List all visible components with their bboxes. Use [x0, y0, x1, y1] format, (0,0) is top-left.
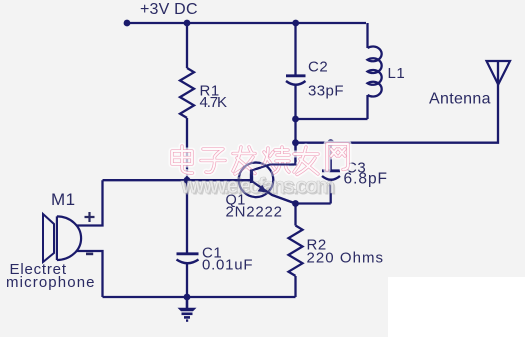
wire collector column [294, 119, 296, 165]
wire tank bottom row [296, 118, 368, 120]
node junction base/R1/C1 [184, 177, 191, 184]
node junction tank bottom [292, 116, 299, 123]
node junction C3 tap [327, 139, 334, 146]
label mic plus [85, 212, 95, 222]
capacitor C2 [286, 76, 306, 85]
wire R2 bottom lead [294, 276, 296, 297]
white block bottom-right [388, 277, 525, 337]
ground [178, 297, 197, 321]
svg-text:L1: L1 [388, 65, 406, 82]
wire top +3V rail [127, 22, 366, 24]
node power terminal dot [124, 20, 131, 27]
node junction emitter/R2 [292, 200, 299, 207]
svg-text:C2: C2 [308, 59, 328, 76]
antenna [487, 61, 511, 85]
wire R2 top lead [294, 204, 296, 226]
wire C3 bottom lead [330, 179, 332, 204]
capacitor C3 [322, 171, 340, 180]
wire output row to antenna [296, 61, 499, 143]
node junction output row left [292, 139, 299, 146]
wire C1 top lead [186, 180, 188, 252]
svg-text:6.8pF: 6.8pF [344, 171, 388, 188]
resistor R1 [180, 68, 194, 118]
wire C3 top lead [330, 143, 332, 170]
wire collector elbow vertical [294, 143, 296, 165]
resistor R2 [289, 226, 303, 276]
svg-text:+3V DC: +3V DC [140, 1, 198, 18]
wire C2 top lead [294, 23, 296, 75]
wire C2 bottom lead [294, 84, 296, 119]
svg-text:33pF: 33pF [308, 83, 344, 100]
wire emitter row [296, 202, 331, 204]
transistor Q1 symbol redraw [236, 163, 297, 204]
label mic minus [86, 253, 93, 256]
svg-text:M1: M1 [51, 190, 76, 209]
node junction C2/top rail [292, 20, 299, 27]
wire C1 bottom lead [186, 263, 188, 298]
svg-text:Antenna: Antenna [429, 91, 491, 108]
node junction C1/ground rail [184, 294, 191, 301]
svg-text:220 Ohms: 220 Ohms [307, 250, 384, 267]
node junction R1/top rail [184, 20, 191, 27]
wire R1 top lead [186, 23, 188, 68]
wire mic minus stub [77, 251, 103, 297]
capacitor C1 [177, 254, 199, 263]
wire mic plus stub [77, 180, 103, 225]
wire R1 bottom lead to base node [186, 118, 188, 180]
transistor Q1 [239, 163, 297, 204]
svg-text:0.01uF: 0.01uF [202, 257, 253, 274]
inductor L1 [368, 46, 382, 96]
watermark www.elecfans.com [180, 173, 337, 200]
wire bottom ground rail [103, 296, 296, 298]
svg-text:2N2222: 2N2222 [226, 204, 283, 221]
microphone M1 [43, 214, 81, 262]
wire base row [103, 179, 251, 181]
svg-text:4.7K: 4.7K [200, 94, 228, 111]
wire L1 bottom lead [366, 95, 368, 119]
svg-text:microphone: microphone [6, 274, 95, 291]
wire L1 top lead [366, 23, 368, 48]
